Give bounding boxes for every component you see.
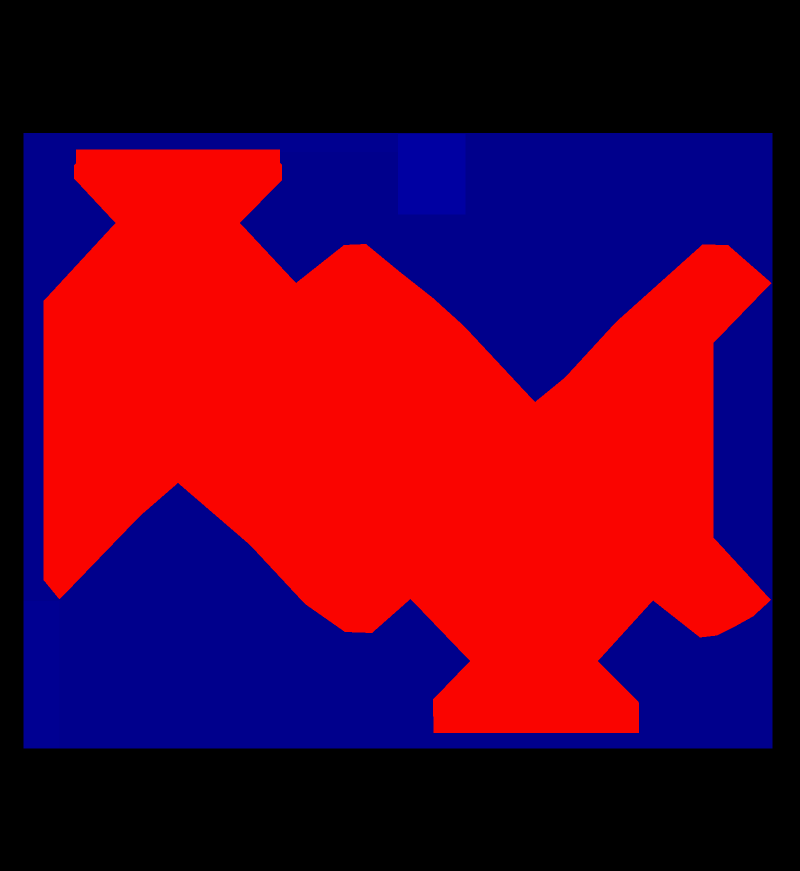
faint light strip bottom-left <box>24 601 60 748</box>
light patch top-center <box>398 134 466 215</box>
faint light strip top-left <box>280 133 398 152</box>
blue panel <box>24 133 773 749</box>
red figure <box>44 149 772 733</box>
